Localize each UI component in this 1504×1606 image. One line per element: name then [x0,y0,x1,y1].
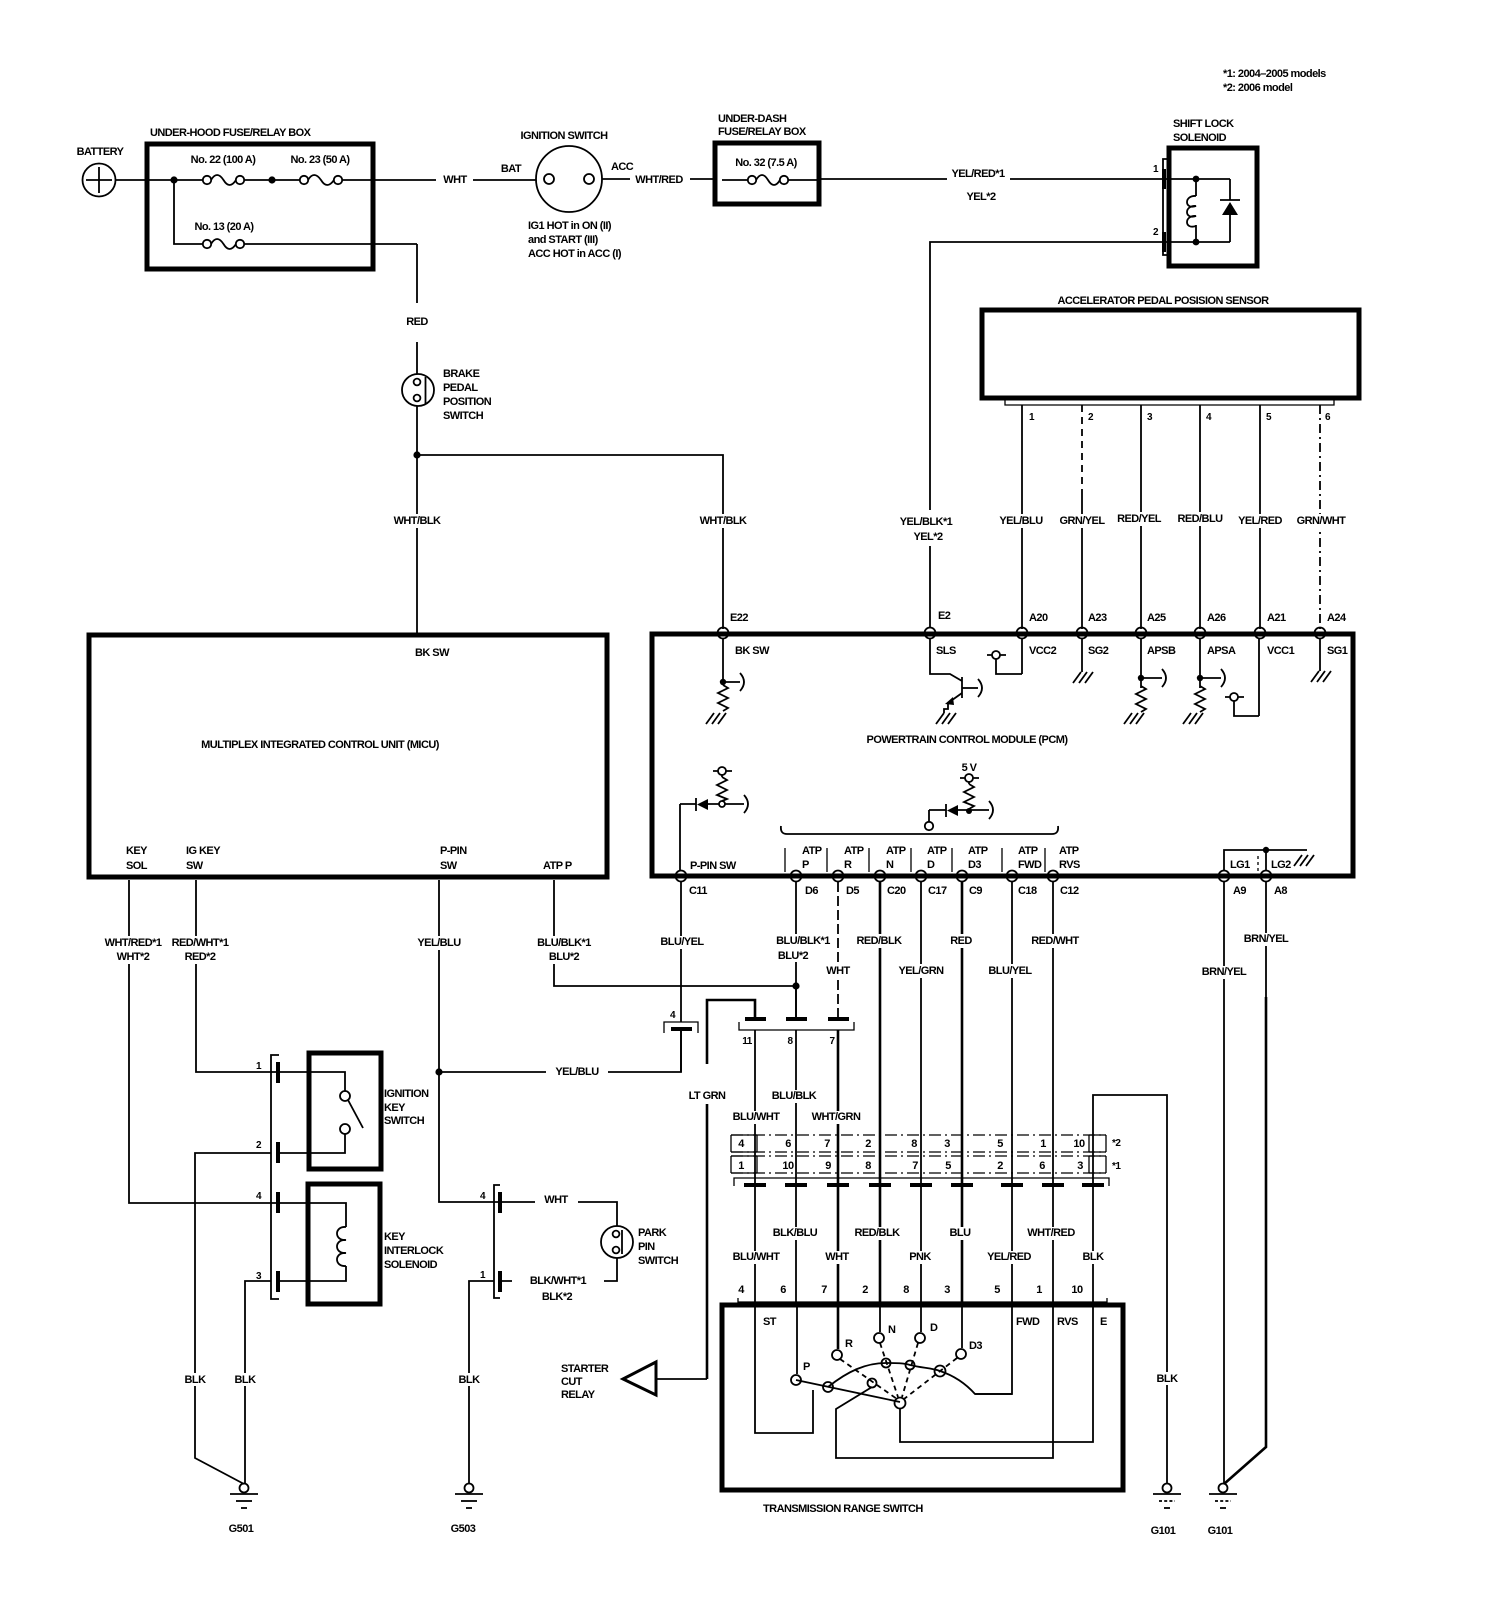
svg-text:PNK: PNK [909,1251,931,1263]
ATP pin separators [785,848,1045,872]
svg-text:SG1: SG1 [1327,645,1348,657]
svg-text:D: D [930,1322,938,1334]
svg-text:KEY: KEY [126,845,148,857]
svg-text:C11: C11 [689,885,707,897]
wire C11 continue [680,1031,682,1072]
svg-text:BLU/YEL: BLU/YEL [660,936,704,948]
svg-text:7: 7 [821,1284,827,1296]
svg-text:BAT: BAT [501,163,522,175]
wire pin6 [1319,405,1321,629]
svg-text:ACCELERATOR PEDAL POSISION SEN: ACCELERATOR PEDAL POSISION SENSOR [1057,295,1269,307]
LG1 LG2 internal [1224,850,1307,871]
wire out of box [342,179,436,181]
D3 contact [961,1307,963,1348]
fuse No.22 (100 A) [203,176,211,184]
switch contacts [280,1072,345,1091]
label BLU [944,1227,978,1240]
svg-text:BLU: BLU [950,1227,972,1239]
svg-text:ATP: ATP [844,845,864,857]
label YEL/RED [986,1251,1034,1264]
svg-text:*2: *2 [1112,1138,1121,1149]
svg-text:POSITION: POSITION [443,396,492,408]
svg-text:*1: *1 [1112,1161,1121,1172]
node junction [792,982,799,989]
svg-text:5: 5 [945,1160,951,1172]
wire BLU/WHT to TRS pin4 [754,1135,756,1305]
svg-text:GRN/YEL: GRN/YEL [1059,515,1105,527]
connector bars [744,1183,766,1187]
svg-text:WHT: WHT [544,1194,568,1206]
svg-text:2: 2 [862,1284,868,1296]
svg-text:D6: D6 [805,885,818,897]
svg-text:SOLENOID: SOLENOID [1173,132,1227,144]
park pin switch [601,1226,633,1258]
svg-text:3: 3 [944,1284,950,1296]
solid arc [828,1363,1012,1394]
svg-text:YEL*2: YEL*2 [913,531,942,543]
wire pin2 to E2 [930,242,1163,627]
svg-text:P-PIN SW: P-PIN SW [690,860,737,872]
svg-text:RED/YEL: RED/YEL [1117,513,1162,525]
svg-text:No. 13 (20 A): No. 13 (20 A) [194,221,254,233]
wire pin5 [1259,405,1261,629]
node junction [268,176,275,183]
wire BLK to TRS pin10 [1092,1135,1094,1305]
svg-text:C17: C17 [928,885,947,897]
wire into box [147,179,203,181]
terminal A25 [1136,628,1147,639]
svg-text:APSB: APSB [1147,645,1176,657]
svg-text:ACC HOT in ACC (I): ACC HOT in ACC (I) [528,248,622,260]
under-dash fuse/relay box [715,143,819,204]
svg-text:RED/BLK: RED/BLK [854,1227,900,1239]
svg-text:ATP: ATP [968,845,988,857]
fuse No.13 (20 A) [203,240,211,248]
svg-text:D: D [927,859,935,871]
svg-text:ATP: ATP [1018,845,1038,857]
svg-text:A9: A9 [1233,885,1246,897]
arm thick [796,1380,900,1402]
wire pin2 inside [1163,241,1230,243]
svg-text:ATP P: ATP P [543,860,572,872]
wire IG KEY down [196,880,276,1072]
svg-text:KEY: KEY [384,1102,406,1114]
svg-text:BLU/YEL: BLU/YEL [988,965,1032,977]
svg-text:PEDAL: PEDAL [443,382,478,394]
diode D2 [695,798,697,811]
svg-text:7: 7 [824,1138,830,1150]
ground G501 [240,1484,249,1493]
P contact [796,1307,798,1374]
ATP P terminal D6 [791,871,802,882]
svg-text:UNDER-DASH: UNDER-DASH [718,113,787,125]
coil L1 [1195,182,1197,196]
SG1 ground [1319,638,1321,671]
svg-text:RED/BLU: RED/BLU [1177,513,1223,525]
svg-text:1: 1 [1040,1138,1046,1150]
svg-text:*2: 2006 model: *2: 2006 model [1223,82,1293,94]
row1 numbers [738,1160,1083,1172]
wire A9 down [1223,882,1225,1483]
transmission range switch box [722,1305,1123,1490]
svg-text:6: 6 [785,1138,791,1150]
svg-text:N: N [886,859,894,871]
wire pin1 to ground [469,1281,494,1483]
svg-text:BK SW: BK SW [735,645,770,657]
svg-text:RVS: RVS [1057,1316,1078,1328]
wire fuse13 branch [174,180,203,244]
wire pin2 to ground [195,1153,271,1484]
wire across to E22 [417,455,723,629]
E wire inside [900,1307,1093,1442]
ST wire inside [755,1307,813,1433]
svg-text:RVS: RVS [1059,859,1080,871]
svg-text:*1: 2004–2005 models: *1: 2004–2005 models [1223,68,1326,80]
label GRN/YEL [1058,514,1106,528]
node [1193,239,1200,246]
R contact [837,1307,840,1349]
svg-text:BLK: BLK [185,1374,207,1386]
svg-text:VCC1: VCC1 [1267,645,1295,657]
wire BLK/WHT to pin1 [502,1258,617,1281]
svg-text:G503: G503 [451,1523,476,1535]
shift lock solenoid box [1169,148,1257,266]
svg-text:BRN/YEL: BRN/YEL [1202,966,1247,978]
svg-text:SWITCH: SWITCH [443,410,484,422]
terminal A26 [1195,628,1206,639]
lower bracket [734,1178,1109,1186]
wire pin3 [1140,405,1142,629]
svg-text:MULTIPLEX INTEGRATED CONTROL U: MULTIPLEX INTEGRATED CONTROL UNIT (MICU) [201,739,440,751]
dashed rays [840,1359,897,1399]
ground G101 right [1219,1484,1228,1493]
svg-text:YEL/BLU: YEL/BLU [417,937,461,949]
wire PNK to TRS pin8 [920,1135,922,1305]
svg-text:1: 1 [1036,1284,1042,1296]
wire D5 down [837,882,839,1019]
svg-text:P: P [802,859,809,871]
svg-text:5: 5 [994,1284,1000,1296]
svg-text:LT GRN: LT GRN [689,1090,726,1102]
svg-text:E2: E2 [938,610,951,622]
svg-text:A23: A23 [1088,612,1107,624]
wire WHT/RED to TRS pin1 [1052,1135,1054,1305]
node junction [413,451,420,458]
VCC1 internal switch sym [1230,693,1238,701]
brake pedal position switch [402,374,434,406]
wire BLK/BLU to TRS pin6 [795,1135,797,1305]
ignition switch [536,146,602,212]
svg-text:6: 6 [1039,1160,1045,1172]
svg-text:RED: RED [406,316,428,328]
svg-text:IG1 HOT in ON (II): IG1 HOT in ON (II) [528,220,612,232]
svg-text:BLU*2: BLU*2 [778,950,809,962]
svg-text:BRAKE: BRAKE [443,368,480,380]
ATP RVS terminal C12 [1048,871,1059,882]
key interlock solenoid box [308,1184,380,1304]
APSB internal [1140,638,1142,688]
coil L2 [280,1203,346,1227]
svg-text:FWD: FWD [1018,859,1042,871]
svg-text:RED*2: RED*2 [185,951,216,963]
wire D6 down [795,882,797,1019]
wire battery to fuse box [116,179,147,181]
P-PIN internal [718,767,726,775]
APSA internal [1199,638,1201,688]
svg-text:KEY: KEY [384,1231,406,1243]
label RED/BLK [852,1227,902,1240]
LT GRN jog wire [707,1000,755,1379]
svg-text:INTERLOCK: INTERLOCK [384,1245,444,1257]
svg-text:WHT*2: WHT*2 [117,951,150,963]
svg-text:C12: C12 [1060,885,1079,897]
svg-text:FUSE/RELAY BOX: FUSE/RELAY BOX [718,126,807,138]
ignition key switch box [309,1053,381,1169]
svg-text:D3: D3 [968,859,981,871]
svg-text:A24: A24 [1327,612,1347,624]
ATP bracket [781,826,1058,834]
svg-text:WHT/RED*1: WHT/RED*1 [105,937,162,949]
ATP FWD terminal C18 [1007,871,1018,882]
svg-text:5 V: 5 V [962,762,978,774]
wire ign to under-dash [602,178,630,180]
svg-text:No. 32 (7.5 A): No. 32 (7.5 A) [735,157,797,169]
svg-text:P: P [803,1361,810,1373]
svg-text:RED/WHT*1: RED/WHT*1 [172,937,229,949]
svg-text:3: 3 [1077,1160,1083,1172]
svg-text:BK SW: BK SW [415,647,450,659]
svg-text:VCC2: VCC2 [1029,645,1057,657]
label GRN/WHT [1295,514,1347,528]
svg-text:BLK: BLK [459,1374,481,1386]
wire pin1 [1021,405,1023,629]
svg-text:PIN: PIN [638,1241,655,1253]
wire C12 down [1052,882,1054,1135]
label BLK [1078,1251,1109,1264]
svg-text:BLU/WHT: BLU/WHT [733,1111,781,1123]
svg-text:C18: C18 [1018,885,1037,897]
svg-text:D3: D3 [969,1340,982,1352]
svg-text:SG2: SG2 [1088,645,1109,657]
svg-text:SOLENOID: SOLENOID [384,1259,438,1271]
svg-text:LG2: LG2 [1271,859,1291,871]
svg-text:IGNITION SWITCH: IGNITION SWITCH [520,130,608,142]
terminal E22 [718,628,729,639]
label RED/YEL [1115,512,1163,526]
svg-text:8: 8 [903,1284,909,1296]
wire between fuses [244,179,300,181]
ATP R terminal D5 [833,871,844,882]
wire label WHT/BLK [392,514,442,528]
svg-text:SLS: SLS [936,645,956,657]
svg-text:A26: A26 [1207,612,1226,624]
wire YEL/RED to TRS pin5 [1011,1135,1013,1305]
wire pin2 [1081,405,1083,495]
label PNK [904,1251,936,1264]
battery B1 [83,164,116,197]
wire BLU to TRS pin3 [961,1135,964,1305]
FWD wire inside [975,1307,1012,1394]
svg-text:BLU/WHT: BLU/WHT [733,1251,781,1263]
wire A8 down [1265,882,1267,997]
label BLK/BLU [770,1227,820,1240]
svg-text:BRN/YEL: BRN/YEL [1244,933,1289,945]
svg-text:ATP: ATP [802,845,822,857]
svg-text:IG KEY: IG KEY [186,845,221,857]
svg-text:R: R [845,1338,853,1350]
wire fuse13 to right [244,243,417,245]
svg-text:E: E [1100,1316,1107,1328]
half connector 11-8-7 bracket [739,1022,854,1030]
node [1193,176,1200,183]
svg-text:D5: D5 [846,885,859,897]
label YEL/BLU [997,514,1045,528]
wire ATP P down [554,880,796,986]
label BLU/WHT [732,1251,780,1264]
svg-text:8: 8 [911,1138,917,1150]
label WHT/RED [1026,1227,1078,1240]
svg-text:WHT: WHT [443,174,467,186]
svg-text:GRN/WHT: GRN/WHT [1297,515,1347,527]
svg-text:BLK: BLK [1157,1373,1179,1385]
svg-text:PARK: PARK [638,1227,667,1239]
ATP D3 terminal C9 [957,871,968,882]
ignition key switch connector [271,1055,279,1299]
svg-text:6: 6 [780,1284,786,1296]
accelerator pedal position sensor box [982,310,1359,398]
svg-text:WHT/RED: WHT/RED [1027,1227,1075,1239]
inline connector rows [731,1135,1106,1152]
svg-text:BLU/BLK*1: BLU/BLK*1 [537,937,591,949]
svg-text:FWD: FWD [1016,1316,1040,1328]
terminal A24 [1315,628,1326,639]
svg-text:BLU*2: BLU*2 [549,951,580,963]
TRS top bracket [738,1298,1107,1302]
svg-text:10: 10 [782,1160,794,1172]
svg-text:P-PIN: P-PIN [440,845,467,857]
SG2 ground [1081,638,1083,672]
diode D1 [1229,179,1231,200]
D contact [920,1307,922,1332]
svg-text:WHT/BLK: WHT/BLK [394,515,441,527]
svg-text:BATTERY: BATTERY [77,146,125,158]
svg-text:WHT/RED: WHT/RED [635,174,683,186]
svg-text:ATP: ATP [886,845,906,857]
park pin connector [494,1185,500,1298]
svg-text:A20: A20 [1029,612,1048,624]
connector bracket [1005,398,1334,405]
svg-text:TRANSMISSION RANGE SWITCH: TRANSMISSION RANGE SWITCH [763,1503,923,1515]
ground G101 left [1163,1484,1172,1493]
node junction [435,1068,442,1075]
ATP N terminal C20 [875,871,886,882]
wires below bracket [754,1030,756,1135]
svg-text:WHT/BLK: WHT/BLK [700,515,747,527]
svg-text:2: 2 [997,1160,1003,1172]
svg-text:WHT: WHT [825,1251,849,1263]
PCM box [652,634,1353,876]
svg-text:WHT/GRN: WHT/GRN [812,1111,861,1123]
svg-text:YEL*2: YEL*2 [966,191,995,203]
svg-text:POWERTRAIN CONTROL MODULE (PCM: POWERTRAIN CONTROL MODULE (PCM) [867,734,1069,746]
svg-text:BLK*2: BLK*2 [542,1291,573,1303]
wire C18 down [1011,882,1013,1135]
svg-text:C20: C20 [887,885,906,897]
fuse No.32 [748,176,756,184]
svg-text:G101: G101 [1208,1525,1233,1537]
wire 9th up right to BLK [1093,1095,1167,1483]
svg-text:APSA: APSA [1207,645,1236,657]
RVS wire inside [836,1307,1053,1458]
svg-text:ACC: ACC [611,161,634,173]
wire WHT to switch [502,1202,617,1226]
svg-text:BLK/WHT*1: BLK/WHT*1 [530,1275,587,1287]
svg-text:STARTER: STARTER [561,1363,609,1375]
svg-text:No. 23 (50 A): No. 23 (50 A) [290,154,350,166]
svg-text:BLK/BLU: BLK/BLU [773,1227,818,1239]
svg-text:WHT: WHT [826,965,850,977]
TRS pin numbers [738,1284,1083,1296]
svg-text:YEL/RED*1: YEL/RED*1 [951,168,1005,180]
fuse No.23 (50 A) [300,176,308,184]
svg-text:C9: C9 [969,885,982,897]
svg-text:10: 10 [1073,1138,1085,1150]
svg-text:5: 5 [997,1138,1003,1150]
svg-text:YEL/RED: YEL/RED [1238,515,1282,527]
svg-text:SW: SW [440,860,458,872]
terminal A21 [1255,628,1266,639]
svg-text:9: 9 [825,1160,831,1172]
ground G503 [465,1484,474,1493]
under-hood fuse/relay box [147,144,373,269]
pivot contact [895,1398,906,1409]
label RED/BLU [1176,512,1224,526]
svg-text:2: 2 [865,1138,871,1150]
svg-text:IGNITION: IGNITION [384,1088,429,1100]
svg-text:A21: A21 [1267,612,1286,624]
row2 numbers [738,1138,1085,1150]
terminal A8 [1261,871,1272,882]
svg-text:1: 1 [738,1160,744,1172]
label YEL/RED [1236,514,1284,528]
wire pin1 inside [1163,178,1230,180]
wire KEY SOL down [129,880,276,1203]
MICU box [89,635,607,877]
svg-text:YEL/BLK*1: YEL/BLK*1 [900,516,953,528]
BK SW internal: node [722,638,724,682]
svg-text:8: 8 [865,1160,871,1172]
svg-text:RED/BLK: RED/BLK [856,935,902,947]
SLS internal: transistor Q1 [930,638,962,681]
svg-text:No. 22 (100 A): No. 22 (100 A) [191,154,257,166]
diode D3 [945,804,947,817]
svg-text:G501: G501 [229,1523,254,1535]
wire C9 down [961,882,964,1135]
wire switch down [416,406,418,635]
wire YEL/BLU horizontal [439,1031,681,1072]
svg-text:ATP: ATP [927,845,947,857]
wire C11 down [680,882,682,1022]
svg-text:YEL/RED: YEL/RED [987,1251,1031,1263]
svg-text:RED/WHT: RED/WHT [1031,935,1079,947]
svg-text:N: N [888,1324,896,1336]
wire pin4 [1199,405,1201,629]
terminal A23 [1077,628,1088,639]
svg-text:ATP: ATP [1059,845,1079,857]
label WHT [822,1251,854,1264]
wire C20 down [879,882,882,1135]
VCC2 internal switch sym [992,651,1000,659]
